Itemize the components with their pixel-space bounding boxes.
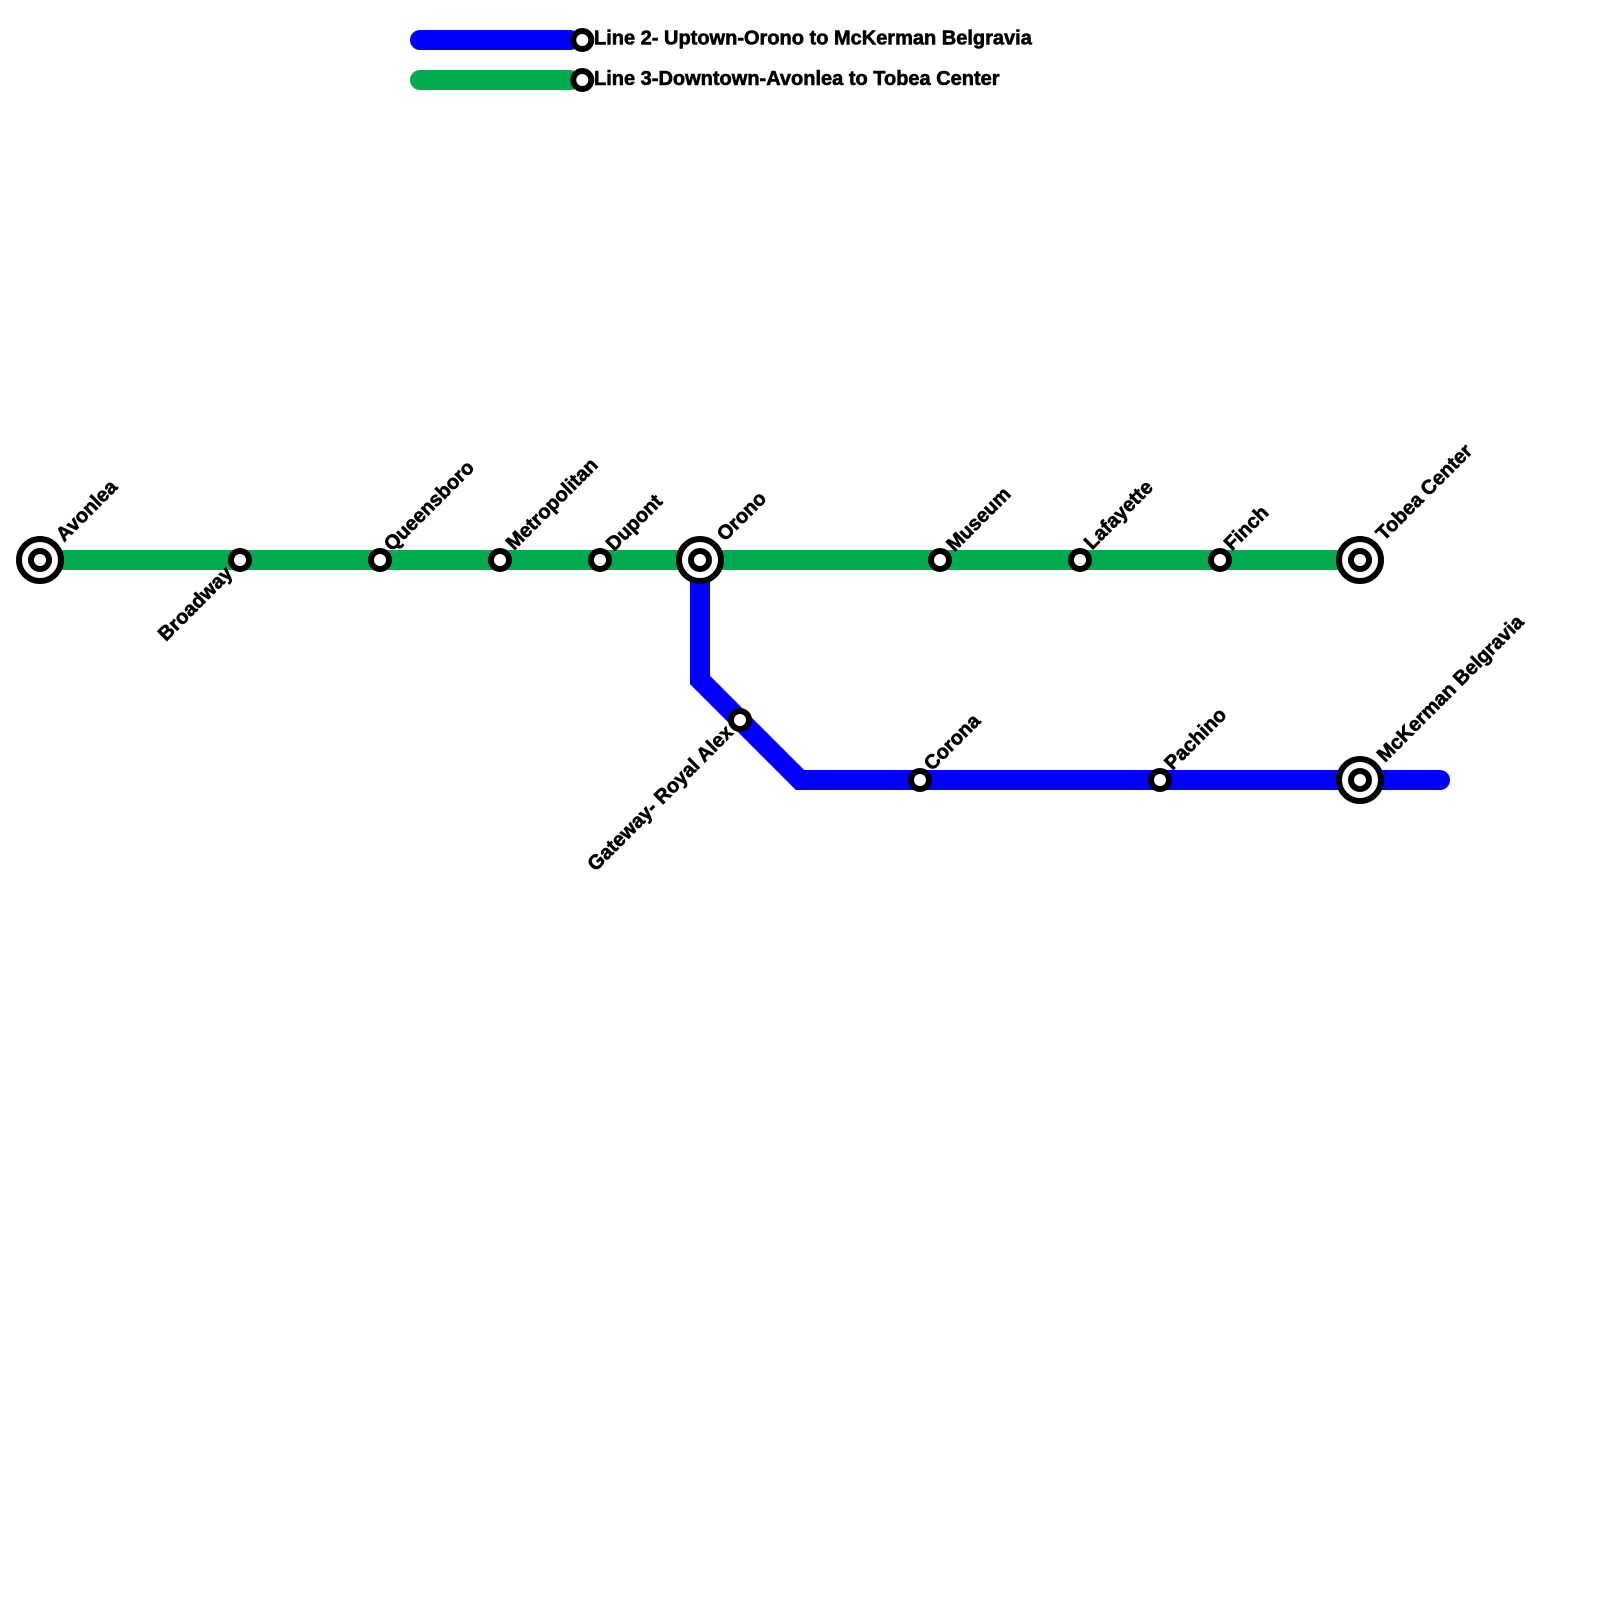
node station Gateway- Royal Alex: [731, 711, 749, 729]
wire: legend Line 2 sample bar: [420, 30, 570, 50]
svg-text:Line 2- Uptown-Orono to McKerm: Line 2- Uptown-Orono to McKerman Belgrav…: [594, 27, 1033, 49]
node station Lafayette: [1071, 551, 1089, 569]
node legend Line 3 station marker: [573, 71, 591, 89]
node station Finch: [1211, 551, 1229, 569]
node terminal McKerman Belgravia: [1339, 759, 1381, 801]
wire: Line 2 blue route Orono to past McKerman Belgravia: [700, 560, 1440, 780]
wire: Line 3 green route Avonlea to Tobea Center: [40, 550, 1360, 570]
node station Pachino: [1151, 771, 1169, 789]
node terminal Avonlea: [19, 539, 61, 581]
svg-text:Line 3-Downtown-Avonlea to Tob: Line 3-Downtown-Avonlea to Tobea Center: [594, 68, 1000, 90]
node legend Line 2 station marker: [573, 31, 591, 49]
node station Queensboro: [371, 551, 389, 569]
node interchange Orono: [679, 539, 721, 581]
node station Metropolitan: [491, 551, 509, 569]
node station Museum: [931, 551, 949, 569]
node station Broadway: [231, 551, 249, 569]
node terminal Tobea Center: [1339, 539, 1381, 581]
node station Corona: [911, 771, 929, 789]
wire: legend Line 3 sample bar: [420, 70, 570, 90]
node station Dupont: [591, 551, 609, 569]
